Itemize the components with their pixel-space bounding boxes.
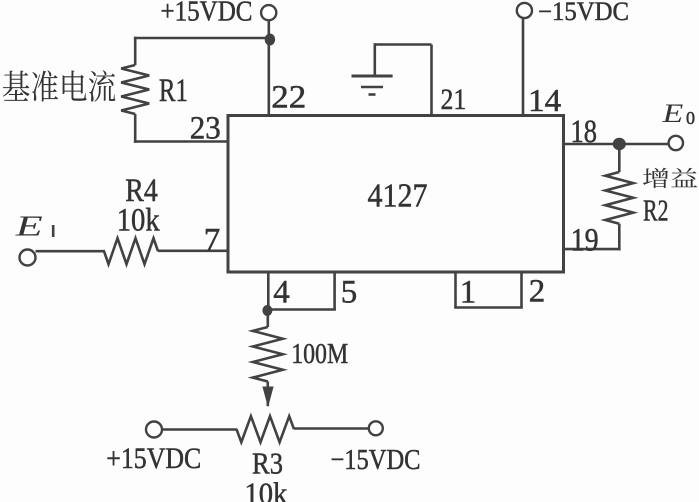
svg-text:22: 22	[271, 79, 306, 115]
svg-text:4127: 4127	[368, 177, 428, 214]
svg-text:−15VDC: −15VDC	[331, 444, 421, 476]
svg-text:21: 21	[441, 83, 467, 116]
svg-text:R2: R2	[643, 193, 669, 228]
svg-text:23: 23	[190, 111, 221, 147]
svg-text:19: 19	[571, 223, 599, 259]
svg-text:−15VDC: −15VDC	[538, 0, 629, 26]
svg-text:0: 0	[686, 108, 695, 128]
svg-text:+15VDC: +15VDC	[106, 442, 201, 475]
svg-text:18: 18	[571, 114, 598, 150]
svg-text:100M: 100M	[291, 338, 348, 370]
svg-text:7: 7	[204, 223, 221, 259]
svg-text:E: E	[662, 99, 684, 128]
svg-text:5: 5	[341, 274, 358, 310]
svg-text:14: 14	[528, 82, 561, 118]
svg-text:R1: R1	[159, 73, 188, 109]
svg-text:1: 1	[460, 274, 477, 310]
svg-text:4: 4	[273, 274, 290, 310]
svg-text:+15VDC: +15VDC	[161, 0, 253, 28]
svg-text:10k: 10k	[244, 475, 287, 502]
svg-text:10k: 10k	[117, 202, 160, 238]
svg-text:E: E	[15, 211, 43, 243]
svg-text:2: 2	[529, 273, 546, 309]
